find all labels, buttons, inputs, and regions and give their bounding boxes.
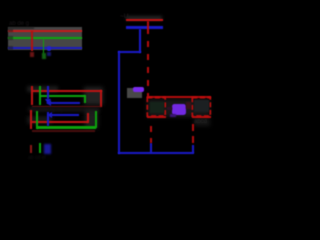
box B bottom edge (192, 116, 211, 118)
box A bottom edge (147, 116, 166, 118)
loop1 blue arrow left (46, 100, 51, 106)
halo loop1 bars (27, 86, 58, 92)
tap wire green (43, 39, 45, 56)
arrowhead below blue node (47, 52, 51, 56)
conductor left end shade N (8, 36, 13, 40)
loop2 green right leg (95, 111, 97, 128)
wire blue bottom rail (118, 152, 194, 154)
conductor left end shade PE (8, 46, 13, 50)
device chassis (gray) (127, 88, 142, 99)
box B component (dark) (194, 100, 209, 113)
leakage dash below box A (150, 126, 152, 132)
loop1 red wire right leg (100, 90, 102, 107)
loop2 red wire (31, 121, 88, 123)
mid caption smudge band (28, 107, 100, 112)
mid caption (dim) (30, 107, 100, 113)
loop1 bus bar blue (47, 86, 49, 99)
loop2 bus bar green (36, 111, 38, 129)
loop1 green wire out (40, 95, 85, 97)
loop1 bus bar red (31, 86, 33, 105)
supply bar positive (red) (126, 19, 163, 22)
conductor left end shade L (8, 29, 13, 33)
legend bar green (39, 143, 41, 153)
red bus top (147, 96, 212, 98)
tap wire red (31, 31, 33, 51)
loop2 red right leg (87, 113, 89, 123)
halo loop2 corner (85, 110, 98, 128)
legend caption dots (28, 155, 58, 159)
cable top dark notch (8, 27, 34, 30)
legend bar red (30, 145, 32, 153)
conductor N (green wire in cable) (8, 37, 82, 40)
conductor L (red wire in cable) (8, 30, 82, 32)
arrowhead below green tap (42, 53, 46, 59)
leakage path dashed red (upper) (147, 21, 149, 34)
halo below box B (194, 118, 210, 126)
conductor PE (blue wire in cable) (8, 47, 82, 50)
loop1 red wire out (32, 90, 102, 92)
arrowhead below red tap (30, 52, 34, 57)
supply bar neutral (blue) (126, 26, 163, 28)
wire blue stub at node (150, 143, 152, 153)
loop2 bus bar blue (47, 112, 49, 126)
label above cable (9, 21, 69, 27)
violet tail dim (170, 114, 176, 117)
link wire dim right (186, 102, 191, 109)
leakage dash below box B (192, 124, 194, 131)
wire blue right riser (192, 145, 194, 153)
indicator violet (133, 87, 145, 92)
loop2 dim return (32, 130, 95, 132)
link wire dim left (167, 107, 172, 110)
halo loop1 corner (84, 87, 103, 105)
box A and box B red dashed outlines (0, 0, 220, 185)
loop2 blue return wire (51, 114, 79, 116)
box A component (dark) (150, 102, 164, 113)
impedance Z (violet component) (172, 104, 186, 114)
loop2 bus bar red (30, 110, 32, 129)
cable sheath (gray band) (8, 27, 82, 50)
loop1 blue return wire (50, 102, 80, 104)
halo loop2 bars (27, 116, 52, 124)
loop1 blue arrow down (45, 99, 51, 104)
halo supply bars (126, 16, 162, 20)
loop1 green right leg (84, 95, 86, 103)
box B caption dim (194, 119, 220, 126)
wire blue horizontal to left rail (118, 51, 141, 53)
loop2 blue arrow left (47, 112, 52, 118)
junction blue node (47, 46, 52, 52)
halo mid components row (147, 99, 210, 117)
wire blue drop from supply (139, 29, 141, 53)
legend bar blue (44, 144, 52, 154)
loop2 green wire (37, 126, 96, 128)
wire blue left rail down (118, 51, 120, 154)
supply label (120, 13, 142, 19)
loop1 red return (dim) (32, 106, 101, 108)
loop1 bus bar green (39, 86, 41, 105)
